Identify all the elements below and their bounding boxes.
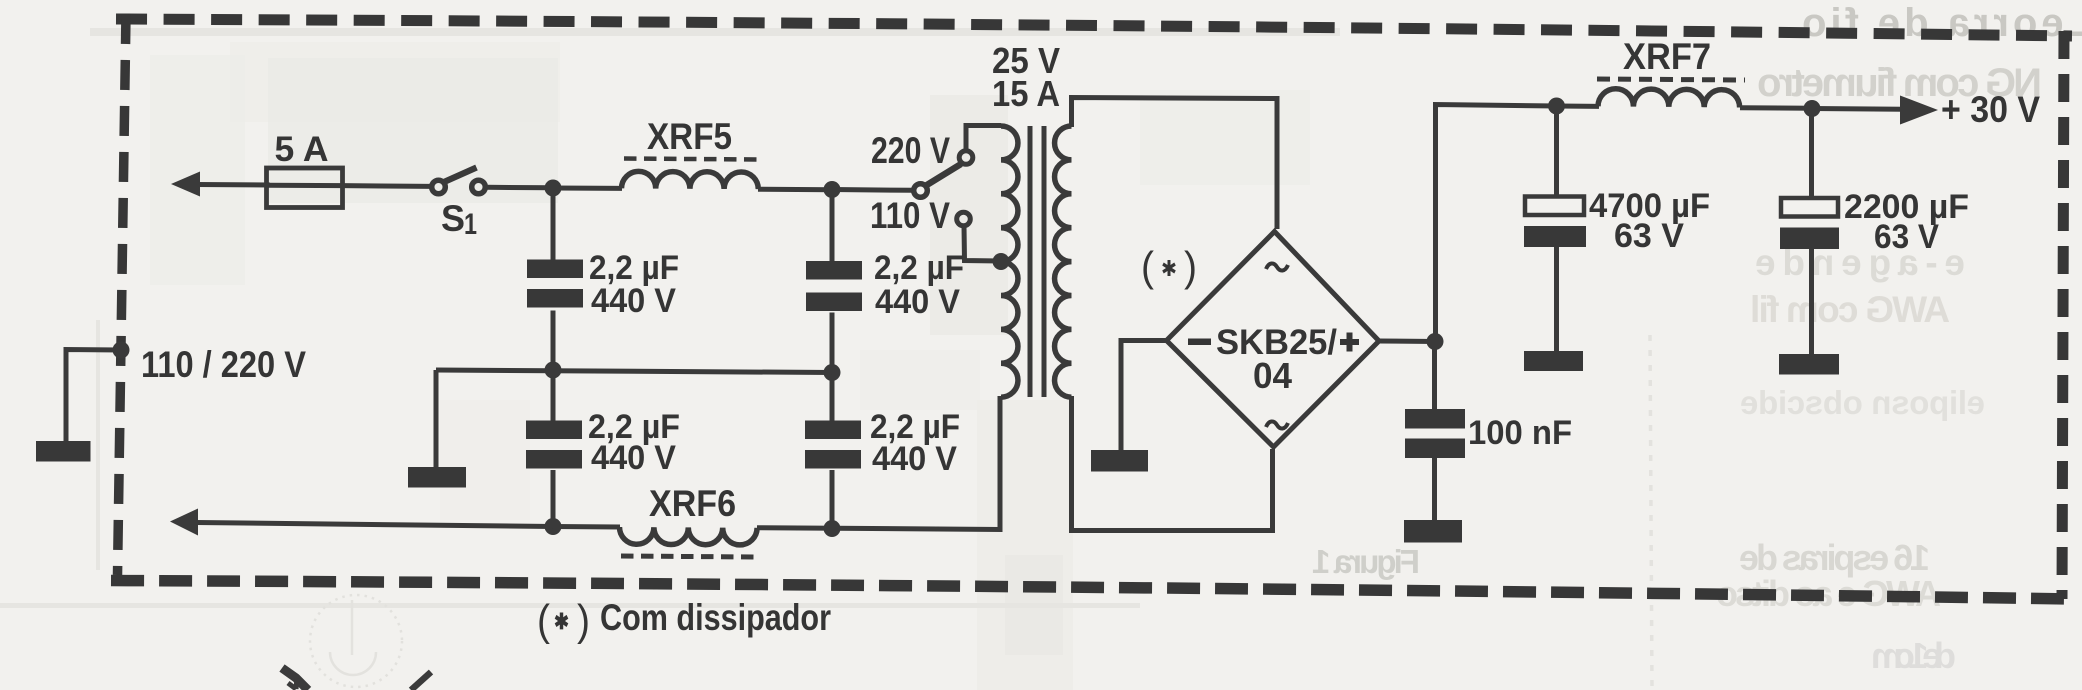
node B junction dot	[824, 181, 841, 198]
label C7 value 2200 uF	[1844, 188, 1969, 226]
svg-text:63 V: 63 V	[1614, 217, 1684, 255]
capacitor C5 100nF	[1405, 342, 1465, 522]
ground G3 (bridge minus)	[1091, 450, 1148, 472]
label B1 part number 04	[1253, 355, 1292, 396]
label output +30 V	[1941, 89, 2040, 130]
ground G1 (mains input)	[36, 441, 91, 462]
svg-text:): )	[1184, 243, 1197, 290]
wire bridge minus to ground	[1121, 341, 1167, 452]
inductor XRF6	[619, 527, 757, 557]
svg-text:63 V: 63 V	[1874, 218, 1939, 256]
svg-text:2,2 µF: 2,2 µF	[874, 249, 964, 287]
wire bridge plus to node P	[1379, 339, 1436, 345]
label C6 voltage 63 V	[1614, 217, 1684, 255]
svg-text:XRF7: XRF7	[1623, 36, 1711, 77]
wire fuse to switch S1	[343, 183, 430, 189]
wire secondary bottom to bridge AC2	[1072, 396, 1273, 531]
wire secondary top to bridge AC1	[1072, 98, 1278, 230]
label B1 minus terminal	[1188, 339, 1211, 346]
label S1 (switch reference)	[441, 198, 477, 241]
label C5 value 100 nF	[1468, 414, 1572, 452]
label B1 AC top terminal ~	[1266, 263, 1288, 270]
svg-text:440 V: 440 V	[591, 439, 676, 477]
svg-text:04: 04	[1253, 355, 1292, 396]
label B1 plus terminal	[1340, 333, 1359, 352]
inductor XRF7	[1597, 79, 1745, 108]
tap contact 110 V	[957, 212, 1001, 261]
label caption (*) Com dissipador	[537, 596, 831, 645]
wire mains input to ground G1	[66, 350, 121, 443]
svg-text:16 espiras de: 16 espiras de	[1739, 537, 1930, 578]
selector switch common contact	[914, 164, 961, 197]
tap contact 220 V	[959, 126, 1001, 165]
ground G6 (2200uF)	[1779, 354, 1839, 375]
svg-text:XRF5: XRF5	[647, 116, 732, 157]
label (*) heatsink marker	[1141, 243, 1197, 290]
svg-text:110 V: 110 V	[870, 195, 950, 236]
svg-text:de 1 cm: de 1 cm	[1871, 635, 1956, 676]
node: mains line L arrow (top left)	[171, 172, 270, 197]
node P junction dot	[1427, 333, 1444, 350]
label tap 110 V	[870, 195, 950, 236]
wire XRF5 to node B	[758, 187, 832, 193]
label C2 value 2,2 uF	[588, 408, 680, 446]
node tap junction dot	[993, 253, 1010, 270]
svg-text:S: S	[441, 198, 465, 239]
label C4 value 2,2 uF	[870, 408, 960, 446]
label mains 110 / 220 V	[141, 344, 306, 385]
wire node P riser to top rail	[1436, 105, 1558, 342]
label B1 AC bottom terminal ~	[1266, 421, 1288, 428]
dashed frame left border	[118, 14, 127, 575]
label C1 value 2,2 uF	[589, 249, 679, 287]
svg-text:XRF6: XRF6	[649, 483, 736, 524]
svg-text:Com dissipador: Com dissipador	[600, 597, 831, 638]
node D junction dot (bottom rail left)	[545, 518, 562, 535]
label XRF6	[649, 483, 736, 524]
label T1 secondary 25 V	[992, 40, 1060, 81]
wire node D to inductor XRF6	[553, 524, 620, 530]
capacitor C4 2,2uF (lower right)	[805, 373, 861, 529]
label 5 A (fuse value)	[275, 129, 329, 169]
wire S1 to node A	[486, 185, 553, 191]
svg-text:AWG com fil: AWG com fil	[1750, 289, 1950, 330]
svg-text:1: 1	[464, 208, 477, 241]
svg-text:✱: ✱	[1161, 256, 1177, 281]
dashed frame top border	[116, 19, 2072, 36]
svg-text:5 A: 5 A	[275, 129, 329, 169]
partial figure strokes below frame (decorative)	[282, 668, 308, 690]
svg-text:✱: ✱	[554, 609, 569, 634]
label C2 voltage 440 V	[591, 439, 676, 477]
label C6 value 4700 uF	[1589, 187, 1710, 225]
node Q junction dot (XRF7 input)	[1548, 98, 1565, 115]
node F junction dot (bottom rail right)	[824, 520, 841, 537]
fuse F1	[267, 168, 344, 208]
label T1 secondary 15 A	[992, 73, 1060, 114]
svg-text:440 V: 440 V	[872, 440, 957, 478]
capacitor C2 2,2uF (lower left)	[526, 370, 582, 527]
svg-text:(: (	[537, 596, 550, 645]
label C1 voltage 440 V	[591, 282, 676, 320]
svg-text:): )	[577, 596, 590, 645]
transformer T1 core	[1030, 126, 1044, 397]
capacitor C3 2,2uF (upper right)	[806, 190, 862, 373]
node R junction dot (output node)	[1804, 100, 1821, 117]
switch S1	[432, 168, 486, 194]
wire XRF6 to transformer primary bottom	[757, 396, 1000, 530]
label tap 220 V	[871, 130, 950, 171]
bridge rectifier B1 SKB25/04	[1167, 232, 1380, 448]
label B1 part number SKB25/	[1216, 323, 1337, 362]
node: +30V output arrow	[1812, 96, 1938, 125]
svg-text:110 / 220 V: 110 / 220 V	[141, 344, 306, 385]
svg-text:440 V: 440 V	[591, 282, 676, 320]
ground G2 (mid rail)	[408, 370, 466, 488]
svg-text:100 nF: 100 nF	[1468, 414, 1572, 452]
label C3 voltage 440 V	[875, 283, 960, 321]
svg-text:eliposn obscide: eliposn obscide	[1740, 384, 1985, 421]
node C junction dot	[545, 362, 562, 379]
ground G4 (100nF)	[1404, 520, 1462, 543]
capacitor C6 4700uF electrolytic	[1524, 106, 1586, 352]
wire XRF7 to node R	[1740, 105, 1812, 111]
svg-text:220 V: 220 V	[871, 130, 950, 171]
node E junction dot	[824, 364, 841, 381]
wire node B to selector common	[832, 187, 913, 193]
node A junction dot	[545, 180, 562, 197]
svg-text:440 V: 440 V	[875, 283, 960, 321]
wire node Q to XRF7	[1557, 104, 1599, 109]
label C3 value 2,2 uF	[874, 249, 964, 287]
transformer T1 secondary winding	[1055, 126, 1072, 397]
wire mid rail C to E	[436, 370, 832, 373]
svg-text:Figura 1: Figura 1	[1312, 543, 1420, 580]
label XRF7	[1623, 36, 1711, 77]
svg-text:+ 30 V: + 30 V	[1941, 89, 2040, 130]
capacitor C1 2,2uF (upper left)	[527, 188, 583, 370]
dashed frame bottom border	[111, 581, 2076, 600]
label C4 voltage 440 V	[872, 440, 957, 478]
node mains input junction dot on frame	[113, 342, 130, 359]
ground G5 (4700uF)	[1524, 351, 1583, 371]
svg-text:(: (	[1141, 243, 1154, 290]
label XRF5	[647, 116, 732, 157]
node: mains line N arrow (bottom left)	[170, 509, 553, 536]
dashed frame right border	[2062, 31, 2064, 599]
capacitor C7 2200uF electrolytic	[1780, 109, 1839, 356]
inductor XRF5	[622, 159, 760, 190]
label C7 voltage 63 V	[1874, 218, 1939, 256]
svg-text:15 A: 15 A	[992, 73, 1060, 114]
wire node A to inductor XRF5	[553, 186, 622, 191]
transformer T1 primary winding	[1001, 126, 1018, 397]
